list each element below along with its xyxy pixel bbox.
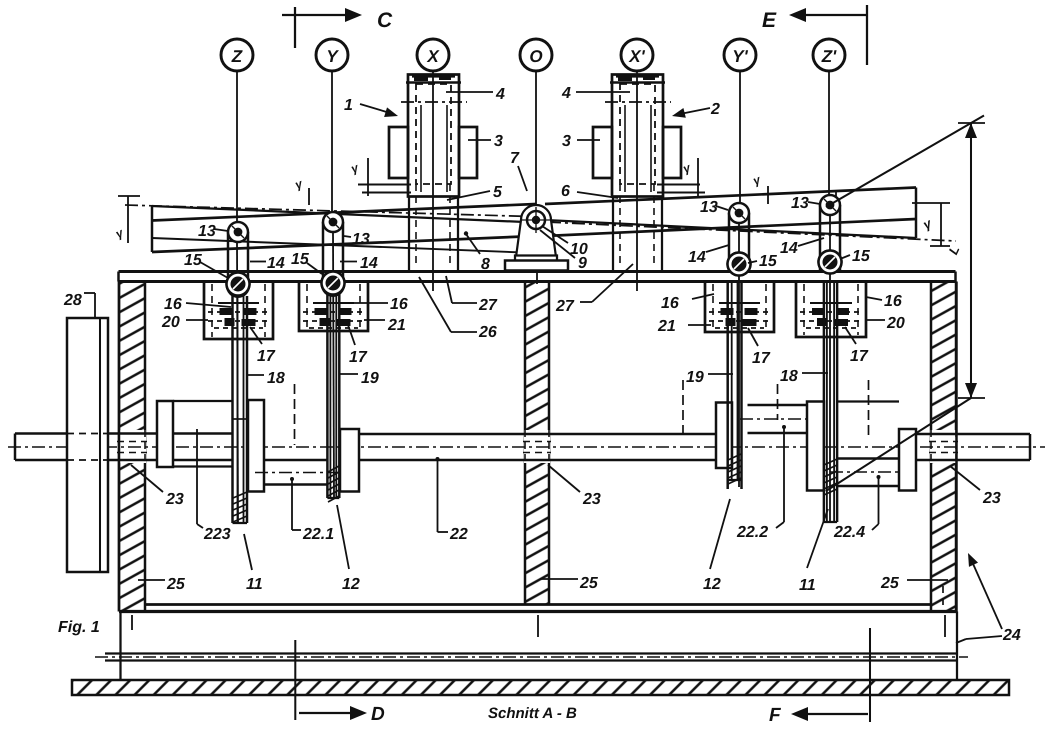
svg-text:17: 17 <box>752 350 771 367</box>
svg-text:Z': Z' <box>821 47 837 66</box>
svg-text:6: 6 <box>561 183 570 200</box>
svg-text:15: 15 <box>852 248 871 265</box>
svg-text:2: 2 <box>710 101 720 118</box>
svg-text:4: 4 <box>561 85 571 102</box>
svg-text:23: 23 <box>165 491 184 508</box>
svg-text:3: 3 <box>494 133 503 150</box>
svg-text:27: 27 <box>555 298 575 315</box>
svg-text:20: 20 <box>886 315 905 332</box>
svg-text:27: 27 <box>478 297 498 314</box>
svg-text:12: 12 <box>703 576 721 593</box>
svg-text:28: 28 <box>63 292 82 309</box>
svg-text:Fig. 1: Fig. 1 <box>58 619 100 636</box>
svg-text:15: 15 <box>184 252 203 269</box>
svg-text:26: 26 <box>478 324 497 341</box>
svg-text:16: 16 <box>164 296 182 313</box>
svg-text:15: 15 <box>291 251 310 268</box>
svg-text:16: 16 <box>884 293 902 310</box>
svg-text:21: 21 <box>387 317 406 334</box>
svg-text:Y: Y <box>326 47 339 66</box>
svg-text:4: 4 <box>495 86 505 103</box>
svg-text:19: 19 <box>361 370 379 387</box>
svg-text:7: 7 <box>510 150 520 167</box>
svg-text:8: 8 <box>481 256 490 273</box>
svg-text:5: 5 <box>493 184 503 201</box>
svg-text:Schnitt A - B: Schnitt A - B <box>488 705 577 722</box>
svg-text:Y': Y' <box>732 47 748 66</box>
svg-text:X: X <box>426 47 440 66</box>
svg-text:13: 13 <box>791 195 809 212</box>
svg-text:21: 21 <box>657 318 676 335</box>
svg-text:13: 13 <box>198 223 216 240</box>
svg-text:14: 14 <box>688 249 706 266</box>
svg-text:23: 23 <box>582 491 601 508</box>
svg-text:16: 16 <box>661 295 679 312</box>
svg-text:14: 14 <box>267 255 285 272</box>
svg-text:X': X' <box>628 47 645 66</box>
svg-text:13: 13 <box>700 199 718 216</box>
svg-text:24: 24 <box>1002 627 1021 644</box>
svg-text:11: 11 <box>799 577 816 594</box>
svg-text:10: 10 <box>570 241 588 258</box>
svg-text:25: 25 <box>166 576 186 593</box>
svg-text:1: 1 <box>344 97 353 114</box>
svg-text:25: 25 <box>880 575 900 592</box>
svg-text:16: 16 <box>390 296 408 313</box>
svg-text:19: 19 <box>686 369 704 386</box>
svg-text:13: 13 <box>352 231 370 248</box>
svg-text:3: 3 <box>562 133 571 150</box>
svg-text:D: D <box>371 704 385 725</box>
svg-text:18: 18 <box>780 368 798 385</box>
svg-text:14: 14 <box>360 255 378 272</box>
svg-text:17: 17 <box>349 349 368 366</box>
svg-text:25: 25 <box>579 575 599 592</box>
svg-text:F: F <box>769 705 782 726</box>
svg-text:22: 22 <box>449 526 468 543</box>
svg-text:22.2: 22.2 <box>736 524 768 541</box>
svg-text:17: 17 <box>257 348 276 365</box>
svg-text:15: 15 <box>759 253 778 270</box>
svg-text:Z: Z <box>231 47 243 66</box>
svg-text:223: 223 <box>203 526 231 543</box>
svg-text:14: 14 <box>780 240 798 257</box>
svg-text:23: 23 <box>982 490 1001 507</box>
svg-text:O: O <box>529 47 542 66</box>
svg-text:C: C <box>377 9 393 32</box>
svg-text:12: 12 <box>342 576 360 593</box>
svg-text:20: 20 <box>161 314 180 331</box>
svg-text:22.1: 22.1 <box>302 526 334 543</box>
svg-text:11: 11 <box>246 576 263 593</box>
svg-text:E: E <box>762 9 777 32</box>
svg-text:22.4: 22.4 <box>833 524 865 541</box>
svg-text:17: 17 <box>850 348 869 365</box>
svg-text:18: 18 <box>267 370 285 387</box>
